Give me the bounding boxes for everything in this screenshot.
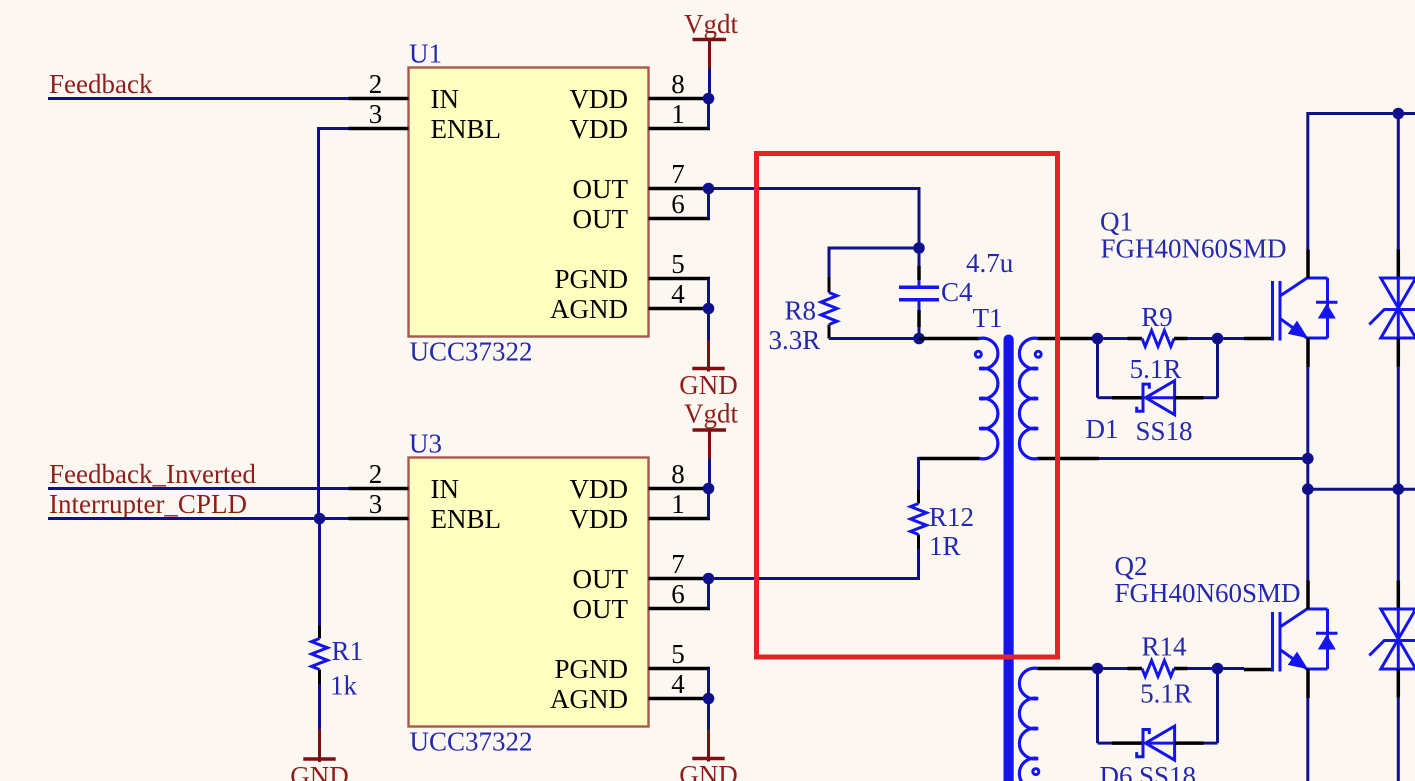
wire R12 to U3 OUT xyxy=(709,549,921,579)
junction U1 pin4 xyxy=(703,303,715,315)
svg-text:Q1: Q1 xyxy=(1100,207,1133,237)
transformer T1 primary winding xyxy=(979,338,998,459)
junction U1 pin8 xyxy=(703,93,715,105)
wire U3 AGND to GND xyxy=(707,699,710,759)
svg-text:GND: GND xyxy=(679,370,738,400)
wire R9 right segment xyxy=(1188,337,1218,340)
label UCC37322 of U3 xyxy=(410,727,533,757)
wire R8 top branch xyxy=(829,247,919,278)
svg-text:1R: 1R xyxy=(929,531,961,561)
junction top bus TVS xyxy=(1393,108,1405,120)
resistor R12 xyxy=(911,490,927,549)
resistor R9 xyxy=(1128,331,1188,347)
transformer T1 core xyxy=(1004,335,1014,781)
transformer T1 primary phase dot xyxy=(975,351,981,357)
junction U3 pin8 xyxy=(703,483,715,495)
label D1 xyxy=(1086,414,1119,444)
svg-text:GND: GND xyxy=(290,761,349,781)
svg-text:D6: D6 xyxy=(1100,761,1133,781)
svg-text:5.1R: 5.1R xyxy=(1130,354,1182,384)
svg-text:VDD: VDD xyxy=(570,84,629,114)
ground GND below U1 xyxy=(679,363,738,401)
wire U1 ENBL to Interrupter_CPLD xyxy=(319,127,349,519)
junction R14 left xyxy=(1092,663,1104,675)
wire U1 OUT to C4 node xyxy=(709,187,920,248)
pin 5 PGND of U3 xyxy=(554,639,710,684)
pin 8 VDD of U1 xyxy=(570,69,711,114)
ground GND below U3 xyxy=(679,753,738,781)
label 4.7u xyxy=(966,248,1014,278)
svg-text:PGND: PGND xyxy=(554,654,628,684)
transformer T1 secondary upper phase dot xyxy=(1035,351,1041,357)
pin 7 OUT of U3 xyxy=(573,549,711,594)
component U3 body xyxy=(409,458,649,727)
net label Feedback xyxy=(49,69,153,99)
wire TVS D2 bottom rail xyxy=(1397,367,1400,490)
net label Interrupter_CPLD xyxy=(49,489,247,519)
svg-text:1: 1 xyxy=(671,99,685,129)
power Vgdt mid xyxy=(684,399,738,459)
pin 2 IN of U3 xyxy=(349,459,460,504)
wire Feedback_Inverted net xyxy=(48,487,349,490)
junction C4 top node xyxy=(913,242,925,254)
annotation red highlight box xyxy=(757,154,1058,658)
label R8 xyxy=(785,296,817,326)
svg-text:FGH40N60SMD: FGH40N60SMD xyxy=(1101,234,1287,264)
wire U3 pin link xyxy=(707,489,710,519)
wire Interrupter_CPLD to R1 xyxy=(318,519,321,627)
wire T1 lower secondary to R14 node xyxy=(1038,667,1098,671)
label UCC37322 of U1 xyxy=(410,337,533,367)
power Vgdt top xyxy=(684,9,738,69)
wire U1 pin link xyxy=(707,279,710,309)
svg-text:5: 5 xyxy=(671,249,685,279)
junction U3 pin4 xyxy=(703,693,715,705)
transistor Q1 xyxy=(1244,250,1338,368)
wire U3 pin link xyxy=(707,579,710,609)
component U1 body xyxy=(409,68,649,337)
resistor R8 xyxy=(821,277,837,339)
transformer T1 secondary lower phase dot xyxy=(1033,769,1039,775)
svg-text:R9: R9 xyxy=(1141,302,1173,332)
wire TVS D7 top rail xyxy=(1397,489,1400,580)
wire Q1 collector rail xyxy=(1306,112,1309,250)
svg-text:6: 6 xyxy=(671,189,685,219)
pin 4 AGND of U3 xyxy=(550,669,710,714)
wire Q1 emitter rail xyxy=(1306,367,1309,581)
wire U1 AGND to GND xyxy=(707,309,710,369)
svg-text:Vgdt: Vgdt xyxy=(684,399,738,429)
wire Vgdt to U1 VDD xyxy=(708,69,711,99)
svg-text:R12: R12 xyxy=(929,502,974,532)
label FGH40N60SMD of Q1 xyxy=(1101,234,1287,264)
pin 4 AGND of U1 xyxy=(550,279,710,324)
wire D6 right drop xyxy=(1204,669,1218,744)
svg-text:OUT: OUT xyxy=(573,594,629,624)
svg-text:FGH40N60SMD: FGH40N60SMD xyxy=(1115,578,1301,608)
label D6 xyxy=(1100,761,1133,781)
label 1R xyxy=(929,531,961,561)
svg-text:4: 4 xyxy=(671,279,685,309)
junction U1 pin7 xyxy=(703,183,715,195)
wire R14 right segment xyxy=(1188,667,1218,670)
svg-text:3: 3 xyxy=(369,99,383,129)
label C4 xyxy=(941,277,973,307)
wire Interrupter_CPLD net xyxy=(48,517,349,520)
junction Interrupter_CPLD / R1 xyxy=(314,513,326,525)
svg-text:IN: IN xyxy=(431,84,460,114)
diode D6 SS18 xyxy=(1112,726,1204,760)
wire T1 secondary bottom xyxy=(1038,457,1308,461)
resistor R14 xyxy=(1128,661,1188,677)
svg-text:5: 5 xyxy=(671,639,685,669)
pin 1 VDD of U3 xyxy=(570,489,711,534)
svg-text:Q2: Q2 xyxy=(1115,551,1148,581)
svg-text:6: 6 xyxy=(671,579,685,609)
svg-text:5.1R: 5.1R xyxy=(1140,679,1192,709)
svg-text:U3: U3 xyxy=(409,429,442,459)
label FGH40N60SMD of Q2 xyxy=(1115,578,1301,608)
wire R9 to Q1 gate xyxy=(1218,337,1245,340)
label R12 xyxy=(929,502,974,532)
pin 3 ENBL of U1 xyxy=(349,99,502,144)
label U3 xyxy=(409,429,442,459)
wire T1 secondary to R9 node xyxy=(1038,337,1098,341)
svg-text:AGND: AGND xyxy=(550,684,628,714)
wire R14 to Q2 gate xyxy=(1218,667,1245,670)
svg-text:AGND: AGND xyxy=(550,294,628,324)
svg-text:IN: IN xyxy=(431,474,460,504)
wire U1 pin link xyxy=(707,99,710,129)
svg-text:4.7u: 4.7u xyxy=(966,248,1014,278)
svg-text:UCC37322: UCC37322 xyxy=(410,337,533,367)
wire D1 left drop xyxy=(1098,339,1113,398)
junction R9 right xyxy=(1212,333,1224,345)
label R1 xyxy=(332,636,364,666)
junction T1 secondary bottom xyxy=(1302,453,1314,465)
svg-text:Vgdt: Vgdt xyxy=(684,9,738,39)
svg-text:1: 1 xyxy=(671,489,685,519)
svg-text:ENBL: ENBL xyxy=(431,114,502,144)
pin 6 OUT of U1 xyxy=(573,189,711,234)
pin 7 OUT of U1 xyxy=(573,159,711,204)
svg-text:D1: D1 xyxy=(1086,414,1119,444)
svg-text:ENBL: ENBL xyxy=(431,504,502,534)
pin 5 PGND of U1 xyxy=(554,249,710,294)
transistor Q2 xyxy=(1244,581,1338,699)
pin 3 ENBL of U3 xyxy=(349,489,502,534)
diode D1 SS18 xyxy=(1112,381,1204,415)
wire U1 pin link xyxy=(707,189,710,219)
junction emitter link left xyxy=(1302,483,1314,495)
label R9 xyxy=(1141,302,1173,332)
svg-text:2: 2 xyxy=(369,69,383,99)
capacitor C4 xyxy=(899,248,939,339)
pin 1 VDD of U1 xyxy=(570,99,711,144)
label 5.1R of R9 xyxy=(1130,354,1182,384)
label 1k xyxy=(330,671,358,701)
resistor R1 xyxy=(312,626,328,684)
svg-text:VDD: VDD xyxy=(570,474,629,504)
svg-text:8: 8 xyxy=(671,69,685,99)
ground GND below R1 xyxy=(290,753,349,781)
label Q2 xyxy=(1115,551,1148,581)
wire R9 left segment xyxy=(1098,337,1128,340)
wire R14 left segment xyxy=(1098,667,1128,670)
svg-text:C4: C4 xyxy=(941,277,973,307)
svg-text:U1: U1 xyxy=(409,39,442,69)
wire T1 primary bottom to R12 xyxy=(919,457,980,490)
transformer T1 secondary winding upper xyxy=(1019,338,1038,459)
svg-text:PGND: PGND xyxy=(554,264,628,294)
wire U3 pin link xyxy=(707,669,710,699)
junction R14 right xyxy=(1212,663,1224,675)
svg-text:OUT: OUT xyxy=(573,174,629,204)
svg-text:Interrupter_CPLD: Interrupter_CPLD xyxy=(49,489,247,519)
svg-text:Feedback_Inverted: Feedback_Inverted xyxy=(49,459,256,489)
label R14 xyxy=(1141,632,1187,662)
svg-text:1k: 1k xyxy=(330,671,358,701)
pin 2 IN of U1 xyxy=(349,69,460,114)
label 3.3R xyxy=(769,325,821,355)
TVS diode D2 xyxy=(1369,250,1415,367)
wire D1 right drop xyxy=(1204,339,1218,398)
label SS18 of D6 xyxy=(1139,761,1196,781)
label T1 xyxy=(973,303,1003,333)
svg-text:R14: R14 xyxy=(1141,632,1187,662)
svg-text:Feedback: Feedback xyxy=(49,69,153,99)
wire R8 bottom branch xyxy=(829,337,919,340)
wire TVS D7 bottom rail xyxy=(1397,698,1400,781)
svg-text:VDD: VDD xyxy=(570,504,629,534)
svg-text:UCC37322: UCC37322 xyxy=(410,727,533,757)
junction R9 left xyxy=(1092,333,1104,345)
svg-text:8: 8 xyxy=(671,459,685,489)
svg-text:7: 7 xyxy=(671,159,685,189)
svg-text:SS18: SS18 xyxy=(1136,416,1193,446)
label U1 xyxy=(409,39,442,69)
wire top bus xyxy=(1308,112,1415,115)
wire Vgdt mid to U3 VDD xyxy=(708,459,711,489)
pin 6 OUT of U3 xyxy=(573,579,711,624)
label SS18 of D1 xyxy=(1136,416,1193,446)
wire Feedback net xyxy=(48,97,349,100)
wire TVS D2 top rail xyxy=(1397,114,1400,250)
svg-text:7: 7 xyxy=(671,549,685,579)
svg-text:4: 4 xyxy=(671,669,685,699)
wire Q2 emitter rail xyxy=(1306,698,1309,781)
svg-text:OUT: OUT xyxy=(573,564,629,594)
wire emitter to TVS link xyxy=(1308,488,1415,491)
svg-text:VDD: VDD xyxy=(570,114,629,144)
wire C4 node to T1 primary xyxy=(919,337,979,341)
svg-text:2: 2 xyxy=(369,459,383,489)
TVS diode D7 xyxy=(1369,581,1415,698)
junction C4 bottom node xyxy=(913,333,925,345)
svg-text:SS18: SS18 xyxy=(1139,761,1196,781)
svg-text:3.3R: 3.3R xyxy=(769,325,821,355)
label Q1 xyxy=(1100,207,1133,237)
junction emitter link right xyxy=(1393,483,1405,495)
wire D6 left drop xyxy=(1098,669,1113,744)
net label Feedback_Inverted xyxy=(49,459,256,489)
svg-text:R1: R1 xyxy=(332,636,364,666)
svg-text:R8: R8 xyxy=(785,296,817,326)
label 5.1R of R14 xyxy=(1140,679,1192,709)
svg-text:T1: T1 xyxy=(973,303,1003,333)
junction U3 pin7 xyxy=(703,573,715,585)
svg-text:GND: GND xyxy=(679,760,738,781)
pin 8 VDD of U3 xyxy=(570,459,711,504)
svg-text:OUT: OUT xyxy=(573,204,629,234)
transformer T1 secondary winding lower xyxy=(1019,668,1038,781)
svg-text:3: 3 xyxy=(369,489,383,519)
wire R1 to GND xyxy=(318,684,321,759)
